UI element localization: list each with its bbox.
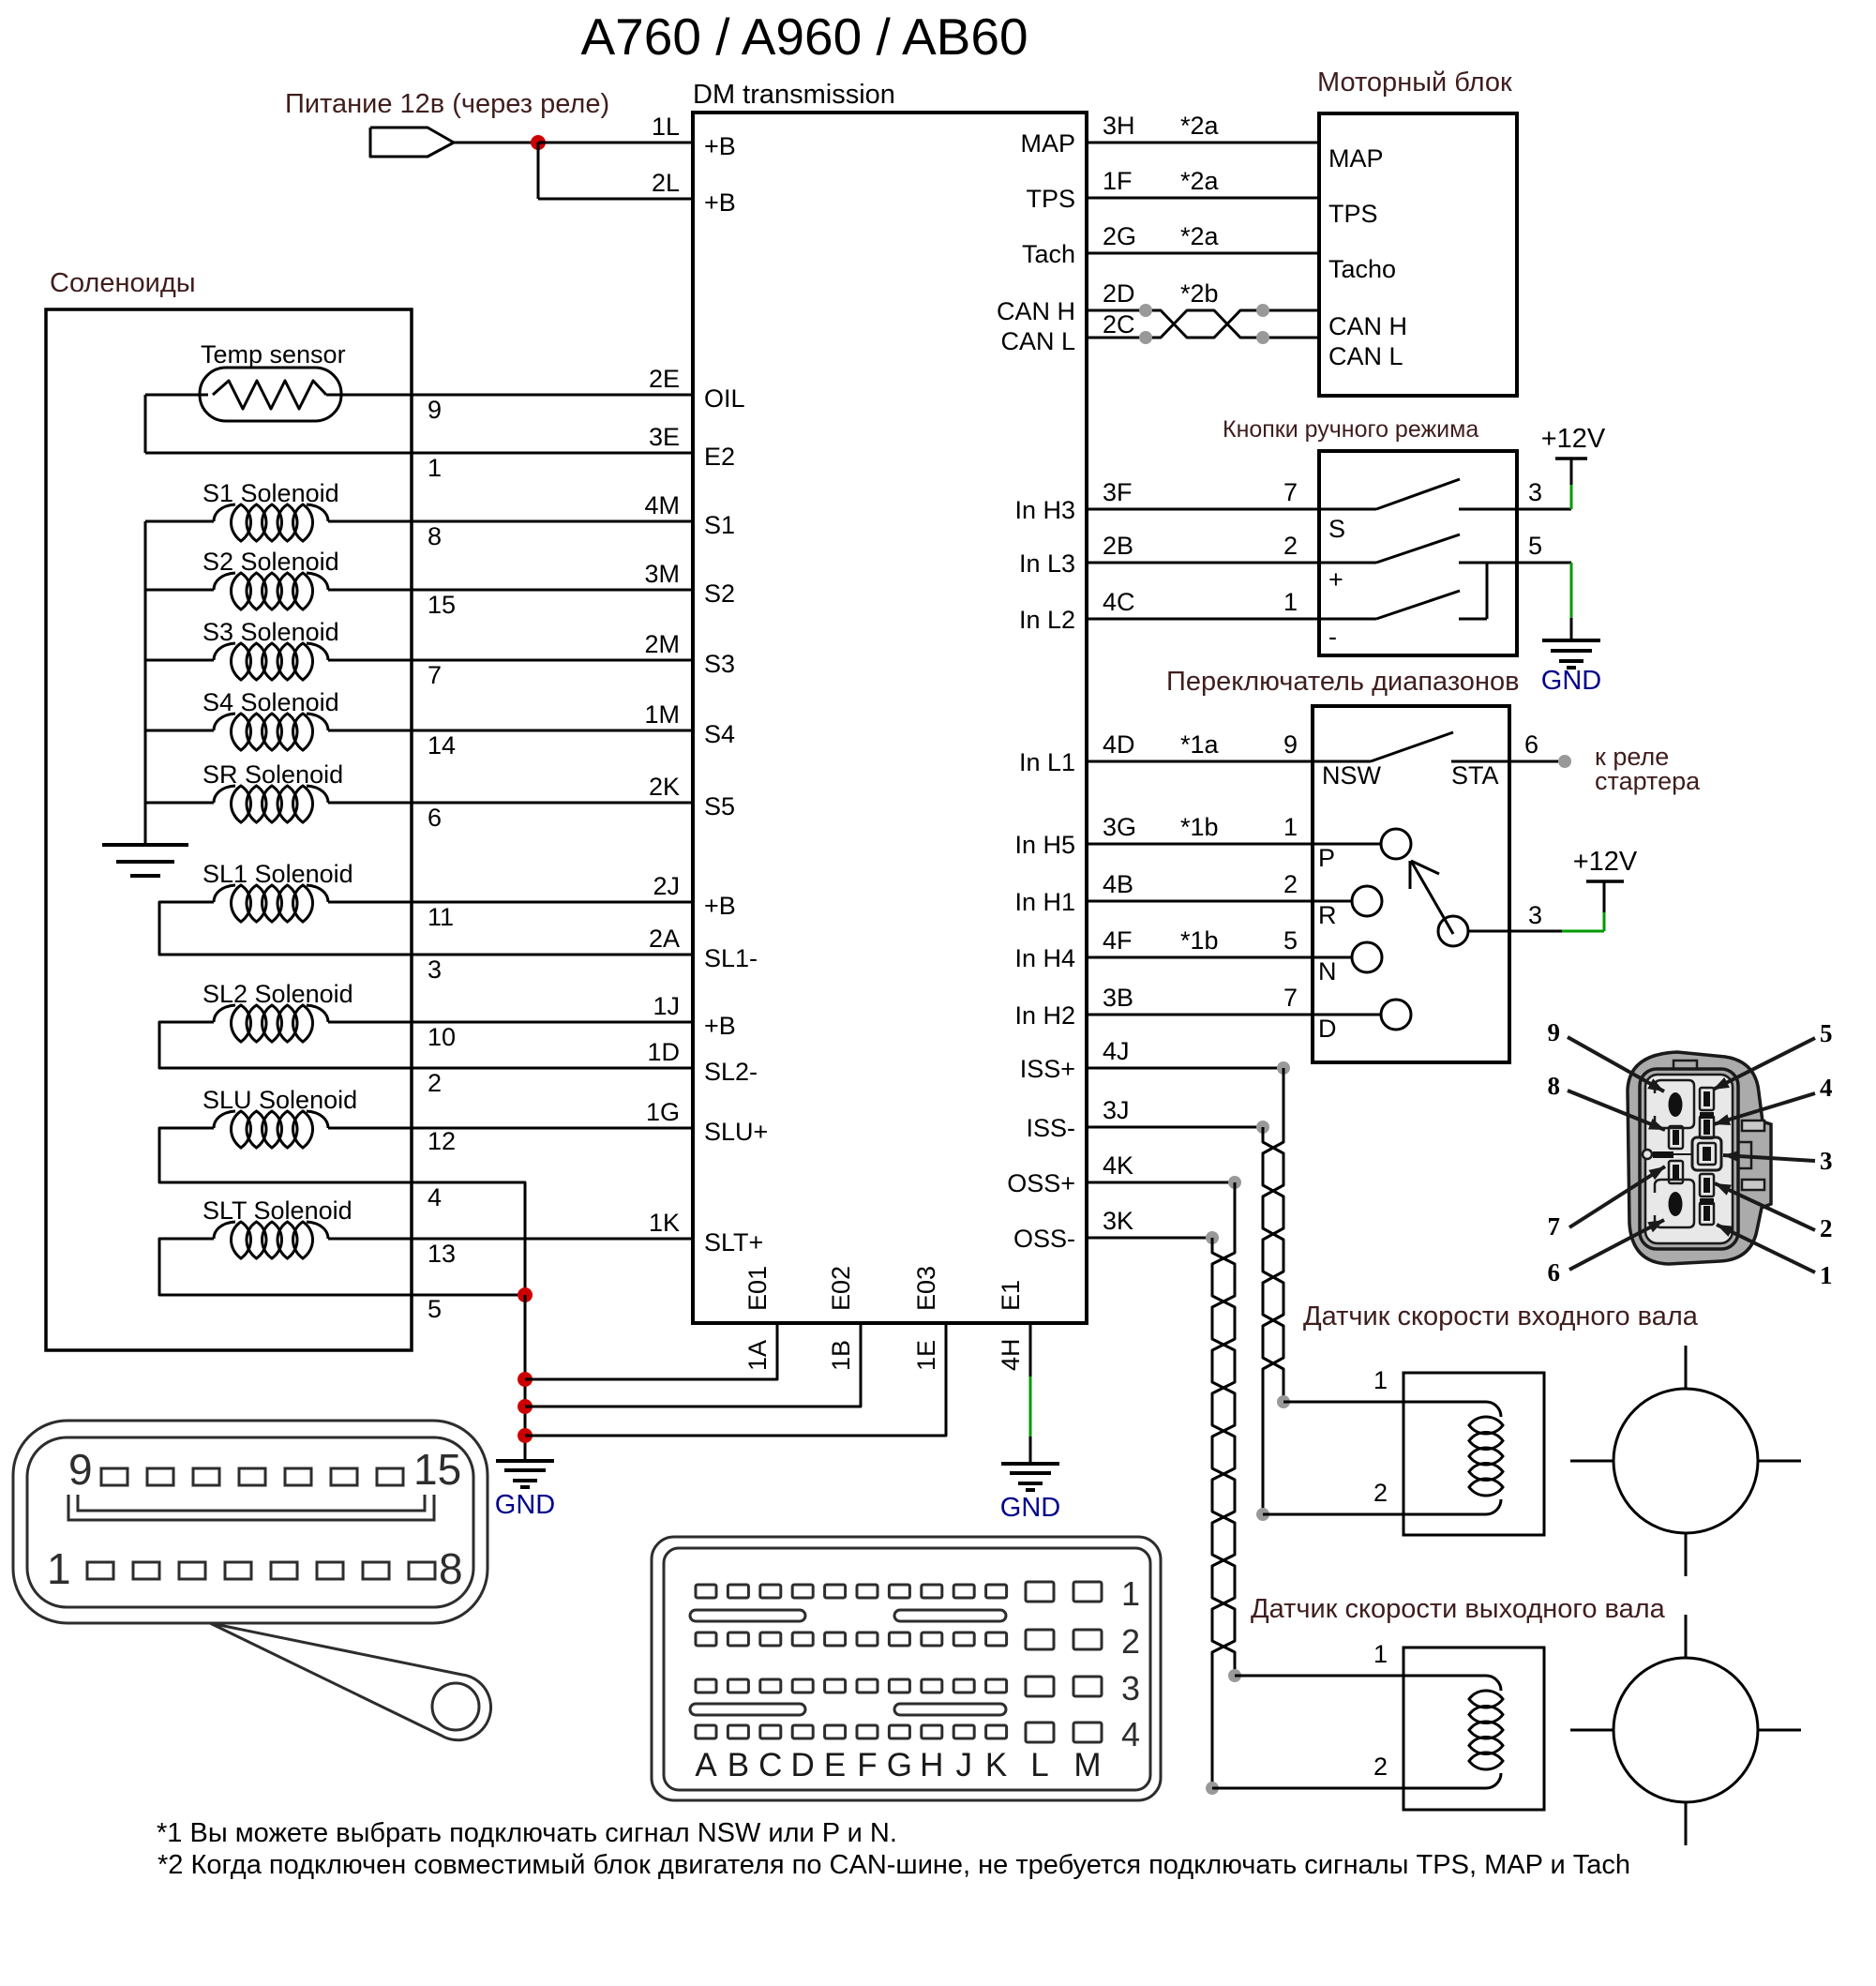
svg-text:C: C bbox=[758, 1747, 782, 1783]
label Temp sensor bbox=[201, 340, 346, 369]
connector X1 pin 2 leader bbox=[1715, 1183, 1815, 1230]
svg-text:6: 6 bbox=[1524, 730, 1538, 759]
svg-text:SL2 Solenoid: SL2 Solenoid bbox=[203, 980, 353, 1008]
svg-text:SL1-: SL1- bbox=[704, 944, 758, 972]
pin label 2B bbox=[1103, 532, 1133, 560]
wire DM 3H to motor MAP bbox=[1087, 142, 1319, 144]
svg-text:SLU+: SLU+ bbox=[704, 1118, 768, 1146]
connector X2 key channel bbox=[68, 1495, 434, 1520]
connector X3 pin row 3 bbox=[696, 1677, 1102, 1696]
pin label 4D bbox=[1103, 730, 1135, 759]
label SLT Solenoid bbox=[203, 1196, 353, 1225]
svg-text:SR Solenoid: SR Solenoid bbox=[203, 760, 343, 789]
wire SLT to pin 1K bbox=[328, 1238, 693, 1241]
wire In H3 pin 3F bbox=[1087, 508, 1319, 511]
wire pin5 out (black) bbox=[1517, 562, 1571, 564]
wire SL1 Solenoid to pin 2J bbox=[328, 901, 693, 904]
node CAN H right (grey) bbox=[1256, 304, 1269, 317]
rotor cross ticks (Датчик скорости выходного вала) bbox=[1570, 1615, 1801, 1845]
connector X3 key slot row3 left bbox=[690, 1704, 805, 1715]
wire pin3 black vertical to +12V bbox=[1603, 881, 1606, 912]
svg-text:+B: +B bbox=[704, 892, 736, 920]
svg-text:L: L bbox=[1030, 1747, 1048, 1783]
footnote *1 bbox=[157, 1818, 897, 1848]
svg-text:In H1: In H1 bbox=[1014, 888, 1075, 916]
svg-text:4D: 4D bbox=[1103, 730, 1135, 759]
wire P contact bbox=[1313, 843, 1382, 846]
connector X3 pin row 1 bbox=[696, 1582, 1102, 1602]
wire pin 2L +B bbox=[538, 198, 693, 201]
connector X3 pin row 2 bbox=[696, 1630, 1102, 1649]
svg-text:K: K bbox=[985, 1747, 1007, 1783]
svg-text:3K: 3K bbox=[1103, 1207, 1133, 1235]
inductor L5 SR Solenoid coil bbox=[214, 786, 328, 822]
svg-text:ISS+: ISS+ bbox=[1020, 1055, 1075, 1083]
label S4 Solenoid bbox=[203, 688, 339, 716]
node ISS+ corner (grey) bbox=[1277, 1061, 1290, 1075]
wire pin E03 to ground junction bbox=[525, 1323, 946, 1436]
svg-text:OIL: OIL bbox=[704, 384, 745, 413]
svg-text:S2 Solenoid: S2 Solenoid bbox=[203, 548, 339, 576]
svg-text:P: P bbox=[1318, 844, 1335, 872]
node OSS sensor wire2 corner (grey) bbox=[1206, 1782, 1219, 1795]
contact R circle bbox=[1352, 886, 1382, 916]
svg-text:2C: 2C bbox=[1103, 310, 1135, 339]
note *1a bbox=[1180, 730, 1220, 759]
pin label 1G bbox=[646, 1098, 680, 1126]
sensor pin number 2 (Датчик скорости выходного вала) bbox=[1373, 1753, 1388, 1781]
svg-text:1M: 1M bbox=[644, 700, 680, 729]
node E03 junction (red) bbox=[518, 1428, 533, 1443]
pin name OIL bbox=[704, 384, 745, 413]
svg-text:1D: 1D bbox=[647, 1038, 680, 1066]
wire number 9 bbox=[428, 396, 442, 424]
svg-text:Датчик скорости выходного вала: Датчик скорости выходного вала bbox=[1251, 1594, 1666, 1624]
node E01 junction (red) bbox=[518, 1372, 533, 1387]
svg-text:S3: S3 bbox=[704, 650, 735, 678]
label + button bbox=[1328, 565, 1343, 594]
connector X3 row number 3 bbox=[1121, 1669, 1140, 1708]
connector X1 pin 5 number bbox=[1820, 1019, 1833, 1047]
svg-text:3B: 3B bbox=[1103, 984, 1133, 1012]
button pin number 5 bbox=[1528, 532, 1542, 560]
svg-text:In L1: In L1 bbox=[1019, 748, 1075, 776]
svg-text:1E: 1E bbox=[912, 1340, 940, 1371]
svg-text:4H: 4H bbox=[997, 1338, 1025, 1371]
pin name SL2- bbox=[704, 1058, 758, 1086]
pin name +B (1J) bbox=[704, 1012, 736, 1040]
svg-text:2: 2 bbox=[1283, 870, 1298, 898]
pin name In H3 bbox=[1014, 496, 1075, 524]
svg-text:1: 1 bbox=[1283, 588, 1298, 616]
pin label 4M bbox=[644, 491, 680, 519]
wire number 2 bbox=[428, 1069, 442, 1097]
svg-text:4: 4 bbox=[1121, 1715, 1140, 1753]
label S1 Solenoid bbox=[203, 479, 339, 507]
svg-text:4F: 4F bbox=[1103, 926, 1133, 955]
wire power plug to junction bbox=[454, 142, 538, 144]
svg-text:6: 6 bbox=[1548, 1258, 1561, 1286]
wire pin E1 green section bbox=[1029, 1377, 1032, 1437]
note *2a on 1F bbox=[1180, 167, 1220, 195]
motor ECU box bbox=[1319, 113, 1517, 396]
wire OSS twisted pair B bbox=[1212, 1238, 1235, 1676]
label position P bbox=[1318, 844, 1335, 872]
wire ISS pair to input sensor pin2 bbox=[1263, 1513, 1403, 1516]
svg-text:SLT+: SLT+ bbox=[704, 1228, 763, 1256]
wire S3 Solenoid to pin 2M bbox=[328, 659, 693, 662]
wire number 15 bbox=[428, 591, 456, 619]
pin name S2 bbox=[704, 579, 735, 608]
svg-text:15: 15 bbox=[413, 1445, 461, 1494]
wire OSS+ pin 4K bbox=[1087, 1181, 1235, 1184]
svg-text:+B: +B bbox=[704, 1012, 736, 1040]
wire CAN L twisted bbox=[1087, 310, 1319, 338]
pin 1B rotated label bbox=[827, 1340, 855, 1371]
pin label 1D bbox=[647, 1038, 680, 1066]
svg-text:+12V: +12V bbox=[1573, 847, 1638, 877]
label Manual mode buttons (Кнопки ручного режима) bbox=[1223, 416, 1478, 443]
svg-text:2D: 2D bbox=[1103, 279, 1135, 308]
connector X3 key slot row1 right bbox=[894, 1610, 1006, 1621]
svg-text:3G: 3G bbox=[1103, 813, 1136, 841]
svg-text:4B: 4B bbox=[1103, 870, 1133, 898]
wire ISS twisted pair B bbox=[1263, 1127, 1283, 1402]
pickup coil (Датчик скорости выходного вала) bbox=[1403, 1676, 1503, 1788]
svg-text:+12V: +12V bbox=[1541, 424, 1606, 454]
svg-text:TPS: TPS bbox=[1026, 185, 1075, 213]
svg-text:R: R bbox=[1318, 901, 1337, 929]
svg-text:SL2-: SL2- bbox=[704, 1058, 758, 1086]
connector X2 ECU plug outer shell bbox=[13, 1421, 488, 1623]
wire SL2 Solenoid to pin 1J bbox=[328, 1021, 693, 1024]
svg-text:1: 1 bbox=[428, 454, 442, 482]
svg-text:2: 2 bbox=[1283, 532, 1298, 560]
inductor L3 S3 Solenoid coil bbox=[214, 643, 328, 680]
svg-text:3E: 3E bbox=[649, 423, 680, 451]
ground symbol solenoid GND bbox=[496, 1461, 554, 1487]
svg-text:MAP: MAP bbox=[1328, 144, 1384, 173]
pin name S4 bbox=[704, 720, 735, 748]
svg-text:E03: E03 bbox=[912, 1266, 940, 1311]
wire number 10 bbox=[428, 1023, 456, 1051]
pin name SLU+ bbox=[704, 1118, 768, 1146]
svg-text:9: 9 bbox=[1548, 1018, 1561, 1046]
node OSS+ corner (grey) bbox=[1228, 1176, 1241, 1189]
note *2a on 3H bbox=[1180, 112, 1220, 140]
label Датчик скорости выходного вала bbox=[1251, 1594, 1666, 1624]
svg-text:In H3: In H3 bbox=[1014, 496, 1075, 524]
svg-text:1G: 1G bbox=[646, 1098, 680, 1126]
svg-text:+: + bbox=[1328, 565, 1343, 594]
pin label 2A bbox=[649, 925, 680, 953]
svg-text:GND: GND bbox=[1541, 666, 1601, 696]
svg-text:3: 3 bbox=[1820, 1147, 1833, 1175]
wire - button contact up to + contact bbox=[1486, 563, 1489, 619]
node ISS sensor wire2 corner (grey) bbox=[1256, 1508, 1269, 1521]
pin label 2M bbox=[644, 630, 680, 658]
+12V symbol (buttons) bbox=[1541, 424, 1606, 485]
switch S button bbox=[1319, 479, 1517, 509]
wire ISS twisted pair A bbox=[1263, 1068, 1283, 1402]
svg-text:F: F bbox=[857, 1747, 877, 1783]
inductor L4 S4 Solenoid coil bbox=[214, 714, 328, 750]
svg-text:*2 Когда подключен совместимый: *2 Когда подключен совместимый блок двиг… bbox=[158, 1850, 1630, 1880]
range pin number 3 bbox=[1528, 901, 1542, 929]
pin label 3G bbox=[1103, 813, 1136, 841]
note *2a on 2G bbox=[1180, 222, 1220, 250]
button pin number 1 bbox=[1283, 588, 1298, 616]
svg-text:Temp sensor: Temp sensor bbox=[201, 340, 346, 369]
label STA bbox=[1451, 761, 1499, 790]
connector X1 pin 8 leader bbox=[1568, 1091, 1665, 1130]
wire ISS pair left down bbox=[1262, 1402, 1265, 1514]
svg-text:2B: 2B bbox=[1103, 532, 1133, 560]
wire S4 Solenoid to pin 1M bbox=[328, 730, 693, 732]
svg-text:Соленоиды: Соленоиды bbox=[50, 268, 196, 298]
pin name Tach (DM side) bbox=[1022, 240, 1075, 268]
svg-text:3M: 3M bbox=[644, 560, 680, 588]
note *1b (4F) bbox=[1180, 926, 1219, 955]
svg-text:SLT Solenoid: SLT Solenoid bbox=[203, 1196, 353, 1225]
svg-text:D: D bbox=[1318, 1015, 1337, 1043]
svg-text:4J: 4J bbox=[1103, 1037, 1130, 1065]
pin label 3E bbox=[649, 423, 680, 451]
wire ISS pair to input sensor pin1 bbox=[1283, 1401, 1403, 1404]
svg-text:Моторный блок: Моторный блок bbox=[1317, 68, 1512, 98]
wire ground rail for S-solenoids bbox=[144, 521, 147, 843]
wire S2 Solenoid left lead to ground rail bbox=[145, 589, 214, 592]
motor pin name Tacho bbox=[1328, 255, 1396, 283]
label position R bbox=[1318, 901, 1337, 929]
svg-text:H: H bbox=[920, 1747, 943, 1783]
pin E1 rotated label bbox=[997, 1280, 1025, 1311]
wire In H2 pin 3B bbox=[1087, 1014, 1313, 1016]
sensor pin number 2 (Датчик скорости входного вала) bbox=[1373, 1479, 1388, 1507]
connector X3 row number 1 bbox=[1121, 1574, 1140, 1613]
rotor cross ticks (Датчик скорости входного вала) bbox=[1570, 1346, 1801, 1576]
wire SLU return to ground column bbox=[159, 1128, 525, 1295]
svg-text:MAP: MAP bbox=[1020, 129, 1075, 158]
svg-text:1: 1 bbox=[1373, 1366, 1388, 1394]
svg-text:2: 2 bbox=[1373, 1753, 1388, 1781]
solenoid assembly box bbox=[46, 309, 412, 1350]
svg-text:*2a: *2a bbox=[1180, 112, 1220, 140]
pin E03 rotated label bbox=[912, 1266, 940, 1311]
ground symbol solenoid rail bbox=[102, 845, 188, 876]
wire CAN H twisted bbox=[1087, 310, 1319, 338]
connector X2 pin number 9 bbox=[68, 1445, 93, 1494]
svg-text:B: B bbox=[728, 1747, 749, 1783]
svg-text:13: 13 bbox=[428, 1240, 456, 1268]
svg-text:8: 8 bbox=[1548, 1072, 1561, 1100]
svg-text:2: 2 bbox=[428, 1069, 442, 1097]
connector X1 pin 1 number bbox=[1820, 1261, 1833, 1289]
label to starter relay line1 bbox=[1595, 743, 1669, 771]
wire SL1 Solenoid return to pin 2A bbox=[159, 902, 693, 955]
label DM transmission bbox=[693, 80, 895, 110]
label SLU Solenoid bbox=[203, 1086, 357, 1114]
motor pin name MAP bbox=[1328, 144, 1384, 173]
button pin number 7 bbox=[1283, 478, 1298, 506]
svg-text:9: 9 bbox=[1283, 730, 1298, 759]
connector J-power plug symbol bbox=[370, 128, 454, 157]
label SL1 Solenoid bbox=[203, 860, 353, 888]
pin label 2D bbox=[1103, 279, 1135, 308]
motor pin name CAN H bbox=[1328, 312, 1407, 340]
svg-text:1A: 1A bbox=[743, 1340, 772, 1371]
label - button bbox=[1328, 623, 1337, 651]
wire ground column x560 bbox=[524, 1295, 527, 1461]
svg-text:Кнопки ручного режима: Кнопки ручного режима bbox=[1223, 416, 1478, 443]
pin label 3F bbox=[1103, 478, 1133, 506]
pin label 3M bbox=[644, 560, 680, 588]
wire OSS pair left down bbox=[1211, 1676, 1214, 1788]
motor pin name TPS bbox=[1328, 200, 1378, 228]
connector X3 row number 4 bbox=[1121, 1715, 1140, 1753]
connector X1 pin 7 number bbox=[1548, 1212, 1561, 1241]
wire OSS pair to output sensor pin2 bbox=[1212, 1787, 1403, 1790]
wire pin3 green horizontal bbox=[1562, 930, 1604, 933]
svg-text:S5: S5 bbox=[704, 792, 735, 820]
svg-text:*1 Вы можете выбрать подключат: *1 Вы можете выбрать подключать сигнал N… bbox=[157, 1818, 897, 1848]
wire number 3 bbox=[428, 955, 442, 984]
pin name MAP (DM side) bbox=[1020, 129, 1075, 158]
sensor pin number 1 (Датчик скорости входного вала) bbox=[1373, 1366, 1388, 1394]
svg-text:Переключатель диапазонов: Переключатель диапазонов bbox=[1166, 667, 1520, 697]
pin label 2K bbox=[649, 773, 680, 801]
pin 1A rotated label bbox=[743, 1340, 772, 1371]
sensor pin number 1 (Датчик скорости выходного вала) bbox=[1373, 1640, 1388, 1668]
node CAN L left (grey) bbox=[1139, 331, 1152, 344]
rotor circle (Датчик скорости входного вала) bbox=[1613, 1389, 1758, 1533]
wire In H5 pin 3G bbox=[1087, 843, 1313, 846]
svg-text:CAN H: CAN H bbox=[1328, 312, 1407, 340]
svg-text:N: N bbox=[1318, 957, 1337, 985]
label SR Solenoid bbox=[203, 760, 343, 789]
range selector box bbox=[1313, 706, 1509, 1062]
pin label 1J bbox=[653, 992, 680, 1020]
thermistor RT1 zigzag element bbox=[213, 381, 326, 409]
svg-text:S1 Solenoid: S1 Solenoid bbox=[203, 479, 339, 507]
wire green to pin3 bbox=[1570, 485, 1573, 509]
svg-text:S4: S4 bbox=[704, 720, 735, 748]
connector X1 pin 4 leader bbox=[1714, 1093, 1815, 1125]
svg-text:4C: 4C bbox=[1103, 588, 1135, 616]
label Motor block (Моторный блок) bbox=[1317, 68, 1512, 98]
svg-text:+B: +B bbox=[704, 188, 736, 217]
pin label 4B bbox=[1103, 870, 1133, 898]
svg-text:8: 8 bbox=[428, 522, 442, 550]
inductor L8 SLU Solenoid coil bbox=[214, 1111, 328, 1148]
svg-text:11: 11 bbox=[428, 903, 454, 931]
footnote *2 bbox=[158, 1850, 1630, 1880]
svg-text:S1: S1 bbox=[704, 511, 735, 539]
selector knob circle bbox=[1438, 916, 1468, 946]
svg-text:1: 1 bbox=[47, 1544, 71, 1593]
pin name SL1- bbox=[704, 944, 758, 972]
wire N contact bbox=[1313, 956, 1353, 959]
svg-text:In H2: In H2 bbox=[1014, 1001, 1075, 1030]
svg-text:2L: 2L bbox=[652, 169, 680, 197]
svg-text:7: 7 bbox=[428, 661, 442, 689]
wire temp sensor to OIL pin 2E bbox=[145, 394, 693, 397]
pin name OSS+ bbox=[1007, 1169, 1075, 1197]
contact N circle bbox=[1352, 942, 1382, 972]
svg-text:*1a: *1a bbox=[1180, 730, 1220, 759]
svg-text:3: 3 bbox=[1121, 1669, 1140, 1708]
label S2 Solenoid bbox=[203, 548, 339, 576]
wire OSS twisted pair A bbox=[1212, 1182, 1235, 1676]
range pin number 2 bbox=[1283, 870, 1298, 898]
node OSS sensor wire1 corner (grey) bbox=[1228, 1669, 1241, 1682]
range pin number 5 bbox=[1283, 926, 1298, 955]
wire OSS- pin 3K bbox=[1087, 1237, 1212, 1240]
wire D contact bbox=[1313, 1014, 1382, 1016]
svg-text:3: 3 bbox=[1528, 478, 1542, 506]
svg-text:5: 5 bbox=[1283, 926, 1298, 955]
svg-text:D: D bbox=[791, 1747, 815, 1783]
svg-text:OSS-: OSS- bbox=[1013, 1225, 1075, 1253]
pin 4H rotated label bbox=[997, 1338, 1025, 1371]
svg-text:S2: S2 bbox=[704, 579, 735, 608]
wire OSS pair to output sensor pin1 bbox=[1235, 1675, 1403, 1678]
wire S3 Solenoid left lead to ground rail bbox=[145, 659, 214, 662]
svg-text:1B: 1B bbox=[827, 1340, 855, 1371]
ground symbol buttons GND bbox=[1542, 640, 1600, 668]
connector X1 pin 3 number bbox=[1820, 1147, 1833, 1175]
connector X2 top pin row (9-15) bbox=[101, 1468, 403, 1485]
range pin number 1 bbox=[1283, 813, 1298, 841]
connector X3 key slot row1 left bbox=[690, 1610, 805, 1621]
svg-text:Питание 12в (через реле): Питание 12в (через реле) bbox=[285, 89, 609, 119]
connector X1 pin 5 leader bbox=[1713, 1038, 1815, 1090]
svg-text:*1b: *1b bbox=[1180, 926, 1219, 955]
pin name TPS (DM side) bbox=[1026, 185, 1075, 213]
wire number 12 bbox=[428, 1127, 456, 1155]
connector X2 inner shell bbox=[27, 1437, 473, 1607]
pin label 3K bbox=[1103, 1207, 1133, 1235]
pin label 3H bbox=[1103, 112, 1135, 140]
svg-text:1: 1 bbox=[1121, 1574, 1140, 1613]
svg-text:7: 7 bbox=[1283, 984, 1298, 1012]
motor pin name CAN L bbox=[1328, 342, 1403, 370]
switch + button bbox=[1319, 534, 1517, 563]
+12V symbol (range) bbox=[1573, 847, 1638, 881]
svg-text:2: 2 bbox=[1121, 1622, 1140, 1661]
wire SR Solenoid left lead to ground rail bbox=[145, 802, 214, 805]
pin name +B (1L) bbox=[704, 132, 736, 160]
pin name S1 bbox=[704, 511, 735, 539]
connector X3 TCU plug outer shell bbox=[652, 1537, 1161, 1800]
svg-text:3: 3 bbox=[1528, 901, 1542, 929]
wire S1 Solenoid left lead to ground rail bbox=[145, 520, 214, 523]
pin name ISS+ bbox=[1020, 1055, 1075, 1083]
pin label 4F bbox=[1103, 926, 1133, 955]
note *1b (3G) bbox=[1180, 813, 1219, 841]
svg-text:3H: 3H bbox=[1103, 112, 1135, 140]
pin label 3B bbox=[1103, 984, 1133, 1012]
svg-text:4M: 4M bbox=[644, 491, 680, 519]
pin label 1L bbox=[652, 113, 680, 141]
button pin number 2 bbox=[1283, 532, 1298, 560]
switch NSW bbox=[1313, 732, 1509, 761]
pin label 2G bbox=[1103, 222, 1136, 250]
node ISS sensor wire1 corner (grey) bbox=[1277, 1395, 1290, 1408]
label SL2 Solenoid bbox=[203, 980, 353, 1008]
svg-text:1: 1 bbox=[1820, 1261, 1833, 1289]
connector X3 pin row 4 bbox=[696, 1723, 1102, 1742]
